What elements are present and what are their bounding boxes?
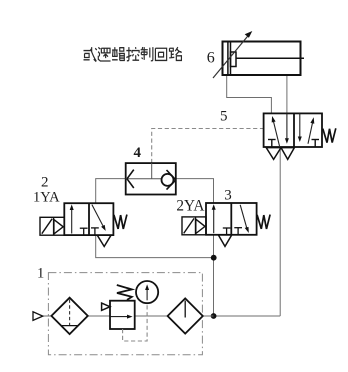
valve3 solenoid 2YA xyxy=(182,217,206,235)
svg-text:5: 5 xyxy=(220,109,228,125)
shuttle left seat xyxy=(127,170,134,188)
valve3 blocked port T left xyxy=(223,228,231,235)
label 5 xyxy=(220,109,228,125)
label 6 xyxy=(207,49,215,66)
glyph 路 xyxy=(169,47,182,60)
valve2 blocked port T left xyxy=(80,228,88,235)
valve2 right box diagonal arrow xyxy=(92,205,106,231)
wire shuttle to valve3 output xyxy=(176,179,214,203)
wire valve5 supply down xyxy=(279,148,281,317)
valve3 right box diagonal arrow xyxy=(240,205,249,233)
wire cylinder right port to valve5 xyxy=(286,75,288,113)
lubricator L xyxy=(168,298,203,333)
valve5 exhaust triangle left xyxy=(266,148,281,160)
regulator R xyxy=(102,285,135,329)
valve3 left box up arrow xyxy=(212,204,216,233)
shuttle output stub xyxy=(151,163,153,179)
svg-text:4: 4 xyxy=(134,145,142,161)
valve2 solenoid 1YA xyxy=(40,217,64,235)
glyph 逻 xyxy=(98,47,110,61)
glyph 辑 xyxy=(112,47,125,61)
pilot dashed wire shuttle to valve5 xyxy=(152,129,264,164)
junction node supply branch xyxy=(211,255,217,261)
pressure gauge xyxy=(136,281,158,303)
valve5 right box blocked port T xyxy=(312,140,320,148)
frl main flow line xyxy=(43,315,214,317)
valve5 left box blocked port T xyxy=(268,140,276,148)
glyph 制 xyxy=(141,47,153,61)
valve3 exhaust triangle xyxy=(218,235,231,246)
valve5 right box down arrow xyxy=(298,113,302,142)
svg-text:2: 2 xyxy=(41,175,49,191)
valve3 spring xyxy=(257,215,270,229)
shuttle center line xyxy=(126,178,162,180)
FRL dash-dot enclosure 1 xyxy=(48,273,202,355)
shuttle right seat xyxy=(167,170,176,190)
valve2 spring xyxy=(114,215,127,229)
valve5 left box down arrow xyxy=(285,113,289,143)
valve 2 body xyxy=(64,203,113,235)
label 3 xyxy=(224,187,232,203)
junction node at frl output xyxy=(211,313,217,319)
regulator pilot dashed loop xyxy=(123,303,148,341)
svg-text:6: 6 xyxy=(207,49,215,66)
title 或逻辑控制回路 (drawn glyphs) xyxy=(84,47,182,61)
wire cylinder left port to valve5 xyxy=(227,75,272,113)
label 1 xyxy=(37,266,44,282)
valve5 left box diagonal arrow xyxy=(272,116,280,146)
valve2 exhaust triangle xyxy=(97,235,111,246)
valve 3 body xyxy=(206,203,257,235)
wire frl output riser to valve3 xyxy=(213,235,215,316)
valve3 blocked port T right xyxy=(234,228,242,235)
valve5 spring xyxy=(323,128,336,142)
inlet source triangle xyxy=(33,312,43,321)
cylinder 6 xyxy=(223,42,305,76)
wire frl output to valve5 supply xyxy=(214,315,281,317)
glyph 或 xyxy=(84,47,97,61)
valve5 exhaust triangle right xyxy=(281,148,294,160)
label 1YA xyxy=(33,189,60,205)
svg-text:1YA: 1YA xyxy=(33,189,60,205)
label 2 xyxy=(41,175,49,191)
glyph 回 xyxy=(155,48,166,60)
label 2YA xyxy=(176,198,204,215)
svg-text:1: 1 xyxy=(37,266,44,282)
svg-text:2YA: 2YA xyxy=(176,198,204,215)
filter F xyxy=(51,298,87,334)
wire supply branch to valve2 xyxy=(96,235,214,258)
svg-text:3: 3 xyxy=(224,187,232,203)
glyph 控 xyxy=(126,47,139,61)
shuttle valve 4 xyxy=(126,163,176,194)
wire valve2 output to shuttle xyxy=(96,179,126,204)
valve 5 body xyxy=(264,113,322,147)
shuttle ball xyxy=(162,174,174,186)
valve5 right box diagonal arrow xyxy=(308,117,314,144)
valve2 blocked port T right xyxy=(91,228,99,235)
cylinder adjust arrow xyxy=(213,31,252,78)
valve2 left box up arrow xyxy=(70,204,74,233)
label 4 xyxy=(134,145,142,161)
